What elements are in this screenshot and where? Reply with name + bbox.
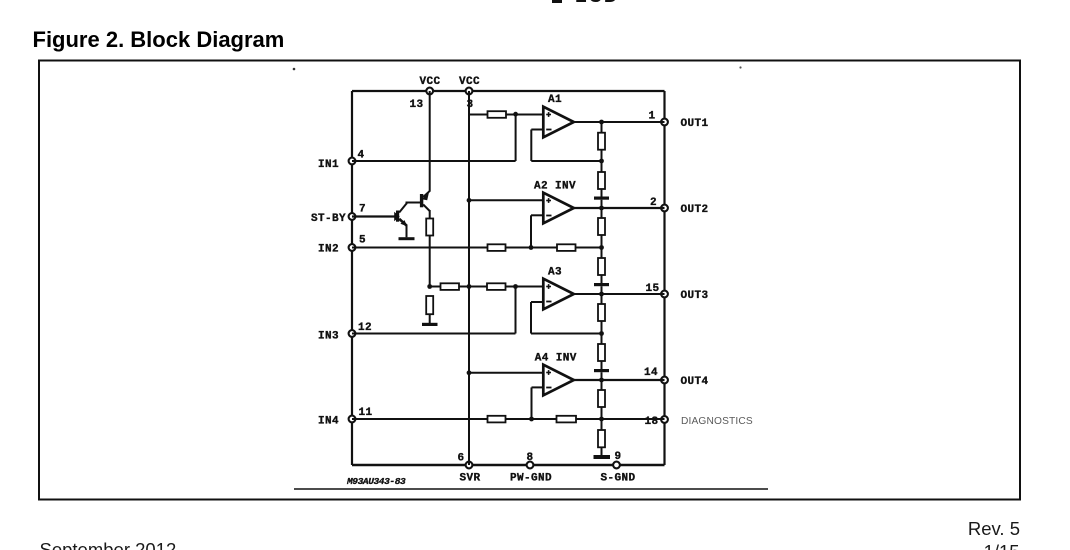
wire A2 plus input	[469, 199, 544, 201]
wire IN2 row mid	[506, 247, 558, 249]
wire A1 feedback to divider	[531, 160, 601, 162]
pin 8 PW-GND	[527, 462, 534, 469]
wire left rail	[351, 91, 353, 465]
wire bottom rail	[352, 464, 665, 467]
pin 7 ST-BY	[349, 213, 356, 220]
node OUT2 divider	[599, 206, 604, 211]
svg-text:14: 14	[644, 367, 658, 379]
resistor A3 bias first	[441, 283, 460, 290]
wire tap to OUT3	[601, 286, 603, 294]
resistor IN4 first	[488, 416, 506, 423]
resistor divider R3	[598, 218, 605, 235]
svg-text:6: 6	[458, 453, 465, 465]
pin 18 DIAGNOSTICS	[661, 416, 668, 423]
stray speck left	[293, 68, 296, 71]
wire A4 plus input	[469, 372, 544, 374]
wire OUT1	[574, 121, 665, 123]
node A2 feedback tap	[599, 245, 604, 250]
resistor divider R8	[598, 430, 605, 447]
svg-text:VCC: VCC	[420, 76, 441, 88]
resistor IN4 second	[557, 416, 577, 423]
resistor A3 bias second	[487, 283, 506, 290]
svg-text:11: 11	[359, 407, 373, 419]
svg-text:M93AU343-83: M93AU343-83	[346, 476, 406, 487]
resistor Q2 emitter	[426, 219, 433, 236]
svg-text:OUT2: OUT2	[681, 204, 709, 216]
svg-text:VCC: VCC	[459, 76, 480, 88]
node A4 feedback junction	[529, 417, 534, 422]
underline inside frame	[294, 488, 768, 490]
wire IN2 row right	[576, 247, 602, 249]
svg-text:IN2: IN2	[318, 244, 339, 256]
node A3 input	[513, 284, 518, 289]
svg-text:S-GND: S-GND	[601, 473, 636, 485]
wire resistor to A3 plus input	[506, 286, 544, 288]
wire Q2 resistor to node	[429, 236, 431, 288]
svg-text:12: 12	[358, 322, 372, 334]
wire A2 feedback stub	[531, 214, 543, 216]
wire divider seg9	[601, 361, 603, 369]
wire A1 feedback down	[530, 130, 532, 162]
wire divider seg5	[601, 235, 603, 258]
wire divider seg8	[601, 321, 603, 344]
node A3 feedback tap	[599, 331, 604, 336]
title Figure 2. Block Diagram	[33, 27, 285, 53]
svg-text:8: 8	[527, 452, 534, 464]
pin 6 SVR	[466, 462, 473, 469]
resistor divider R4	[598, 258, 605, 275]
wire IN4 row right	[576, 418, 602, 420]
wire OUT2	[574, 207, 665, 209]
wire resistor to ground	[429, 314, 431, 323]
wire divider seg11	[601, 407, 603, 430]
svg-text:18: 18	[645, 416, 659, 428]
resistor IN2 first	[488, 244, 506, 251]
svg-text:1: 1	[649, 111, 656, 123]
ground Q1 emitter	[399, 237, 415, 240]
svg-text:4: 4	[358, 150, 365, 162]
ground bias chain	[422, 323, 438, 326]
svg-text:SVR: SVR	[460, 473, 481, 485]
wire right rail	[663, 91, 665, 465]
wire tap to OUT2	[601, 200, 603, 208]
pin 13 VCC	[426, 88, 433, 95]
wire divider seg4	[601, 208, 603, 218]
transistor Q1	[352, 215, 395, 217]
wire OUT3	[574, 293, 665, 295]
wire Q2 emitter down	[429, 210, 431, 219]
svg-text:ST-BY: ST-BY	[311, 213, 346, 225]
node A4 feedback tap	[599, 417, 604, 422]
wire divider to ground	[601, 447, 603, 455]
resistor divider R6	[598, 344, 605, 361]
svg-text:3: 3	[467, 99, 474, 111]
wire divider seg3	[601, 189, 603, 197]
wire divider seg2	[601, 150, 603, 173]
pin 3 VCC	[466, 88, 473, 95]
node OUT4 divider	[599, 378, 604, 383]
node A2 ref tap	[467, 198, 472, 203]
node A1 feedback tap	[599, 159, 604, 164]
wire IN3 riser	[515, 286, 517, 334]
wire A3 feedback to divider	[531, 333, 602, 335]
wire IN1 riser	[515, 114, 517, 161]
resistor divider R2	[598, 172, 605, 189]
svg-text:A4 INV: A4 INV	[535, 353, 577, 365]
wire IN4 row left	[352, 418, 488, 420]
wire tap to OUT4	[601, 372, 603, 380]
svg-text:13: 13	[410, 99, 424, 111]
svg-text:IN1: IN1	[318, 159, 339, 171]
svg-text:7: 7	[359, 204, 366, 216]
svg-text:A3: A3	[548, 267, 562, 279]
wire A3 feedback stub	[531, 301, 543, 303]
transistor Q2	[420, 194, 423, 207]
wire pin13 down to Q2 collector	[429, 91, 431, 192]
wire IN4 row mid	[506, 418, 557, 420]
wire to DIAGNOSTICS pin	[602, 418, 665, 420]
node transistor divider junction	[427, 284, 432, 289]
wire bias row A3 left	[430, 286, 441, 288]
stray speck right	[739, 66, 741, 68]
footer Rev. 5	[968, 518, 1020, 540]
node A1 input	[513, 112, 518, 117]
node A2 feedback junction	[529, 245, 534, 250]
wire A2 feedback down	[530, 215, 532, 247]
ground S-GND chain	[594, 455, 611, 459]
pin 5 IN2	[349, 244, 356, 251]
pin 9 S-GND	[613, 462, 620, 469]
wire bias row A3 mid	[459, 286, 487, 288]
resistor divider R7	[598, 390, 605, 407]
pin 11 IN4	[349, 416, 356, 423]
wire IN1 row	[352, 160, 516, 162]
svg-text:OUT4: OUT4	[681, 376, 709, 388]
wire divider seg1	[601, 122, 603, 133]
wire bias row A1	[469, 114, 488, 116]
pin 14 OUT4	[661, 377, 668, 384]
svg-text:OUT1: OUT1	[681, 118, 709, 130]
svg-text:OUT3: OUT3	[681, 290, 709, 302]
svg-text:A1: A1	[548, 94, 562, 106]
clipped bullet list item top	[552, 0, 562, 3]
svg-text:DIAGNOSTICS: DIAGNOSTICS	[681, 416, 753, 427]
footer 1/15	[984, 541, 1020, 550]
wire A4 feedback stub	[532, 386, 544, 388]
ground tap above OUT4	[594, 369, 609, 372]
node bias SVR junction	[467, 284, 472, 289]
node A4 ref tap	[467, 370, 472, 375]
wire A1 feedback stub	[531, 129, 543, 131]
wire resistor to A1 plus input	[506, 114, 544, 116]
pin 15 OUT3	[661, 291, 668, 298]
wire Q1 emitter down	[406, 225, 408, 238]
op-amp A4	[543, 365, 574, 396]
pin 1 OUT1	[661, 119, 668, 126]
pin 12 IN3	[349, 330, 356, 337]
svg-text:A2 INV: A2 INV	[534, 181, 576, 193]
pin 4 IN1	[349, 158, 356, 165]
wire OUT4	[574, 379, 665, 381]
wire IN2 row left	[352, 247, 488, 249]
resistor IN2 second	[557, 244, 576, 251]
wire pin3 to SVR	[468, 91, 470, 465]
op-amp A2	[543, 193, 574, 224]
op-amp A3	[543, 279, 574, 310]
resistor divider R1	[598, 133, 605, 150]
wire divider seg7	[601, 294, 603, 304]
wire divider seg6	[601, 275, 603, 283]
svg-text:5: 5	[359, 235, 366, 247]
wire A3 feedback down	[530, 302, 532, 334]
ground tap above OUT3	[594, 283, 609, 286]
figure frame	[39, 61, 1020, 500]
resistor divider R5	[598, 304, 605, 321]
resistor bias lower	[426, 296, 433, 314]
svg-text:IN4: IN4	[318, 416, 339, 428]
svg-text:9: 9	[615, 451, 622, 463]
node OUT1 divider top	[599, 120, 604, 125]
op-amp A1	[543, 107, 574, 138]
wire top rail VCC	[352, 90, 665, 92]
pin 2 OUT2	[661, 205, 668, 212]
wire divider seg10	[601, 380, 603, 390]
ground tap above OUT2	[594, 197, 609, 200]
wire A4 feedback down	[531, 387, 533, 419]
svg-text:IN3: IN3	[318, 331, 339, 343]
node OUT3 divider	[599, 292, 604, 297]
footer September 2012	[40, 539, 177, 550]
svg-text:PW-GND: PW-GND	[510, 473, 552, 485]
resistor A1 bias	[488, 111, 507, 118]
wire IN3 row	[352, 333, 516, 335]
